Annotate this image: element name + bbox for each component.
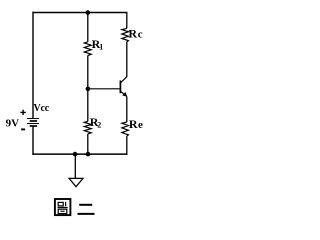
wire: middle branch from R2 to bottom rail: [87, 134, 89, 155]
transistor Q1: collector lead: [120, 77, 127, 83]
wire: right branch from Re to bottom rail: [126, 136, 128, 155]
transistor Q1: base bar: [119, 81, 121, 94]
label: figure caption 二 (hand-drawn): [78, 205, 95, 214]
svg-text:c: c: [138, 29, 143, 41]
label: figure caption 圖 (hand-drawn): [55, 199, 71, 215]
svg-text:e: e: [138, 119, 143, 131]
wire: middle branch from top rail to R1: [87, 13, 89, 42]
battery Vcc 9V: plate short thick (bottom, -): [30, 125, 37, 127]
label: - polarity sign of battery: [21, 128, 25, 130]
battery Vcc 9V: plate long thin: [27, 123, 39, 125]
wire: ground stub: [74, 154, 76, 178]
resistor Re: [122, 122, 128, 136]
svg-text:R: R: [129, 117, 138, 131]
resistor R1: [84, 42, 91, 56]
wire: left vertical from battery - plate down to bottom rail: [32, 126, 34, 155]
svg-text:2: 2: [97, 121, 101, 130]
node: R2 bottom junction dot: [86, 152, 91, 157]
svg-text:Vcc: Vcc: [34, 103, 50, 114]
battery Vcc 9V: plate long thin (top, +): [27, 118, 39, 120]
node: junction dot top of R1 branch: [86, 10, 91, 15]
wire: collector vertical from Rc down to transistor: [126, 42, 128, 77]
wire: emitter vertical from transistor down to Re: [126, 97, 128, 123]
battery Vcc 9V: plate short thick: [30, 120, 37, 122]
wire: left vertical from top rail down to battery + plate: [32, 12, 34, 119]
transistor Q1: emitter lead with arrow: [120, 91, 126, 96]
wire: right branch from top rail to Rc: [126, 13, 128, 29]
node: ground junction dot: [73, 152, 78, 157]
wire: top rail from left branch to right branch: [32, 12, 127, 14]
svg-text:R: R: [128, 27, 137, 41]
node: base junction dot: [86, 87, 91, 92]
resistor Rc: [122, 28, 128, 42]
wire: middle branch from R1 to base node: [87, 56, 89, 122]
ground: [69, 178, 83, 186]
svg-text:9V: 9V: [6, 117, 20, 129]
resistor R2: [84, 121, 91, 134]
label: + polarity sign of battery: [20, 110, 25, 115]
svg-text:1: 1: [99, 43, 103, 52]
wire: bottom rail: [32, 153, 127, 155]
wire: base wire from middle branch to transistor base: [88, 88, 120, 90]
